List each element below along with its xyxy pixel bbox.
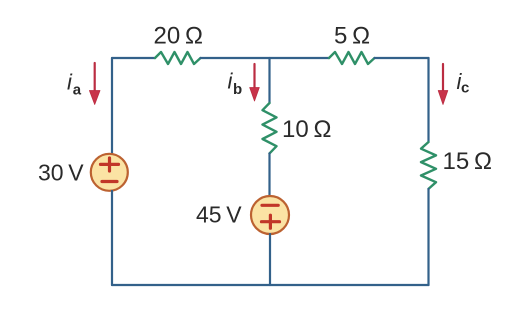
- svg-text:45 V: 45 V: [196, 202, 242, 228]
- wire: right branch lower segment: [427, 189, 429, 285]
- svg-text:5 Ω: 5 Ω: [334, 23, 370, 50]
- minus sign of 30V source: [102, 180, 117, 183]
- svg-text:b: b: [233, 81, 242, 98]
- wire: top-right segment from 5ohm to top-right corner: [375, 57, 429, 59]
- wire: right branch upper segment: [427, 58, 429, 142]
- plus sign of 45V source: [262, 215, 280, 228]
- resistor R 15ohm (right, vertical): [421, 142, 436, 189]
- svg-text:15 Ω: 15 Ω: [443, 148, 492, 175]
- resistor R 20ohm (top-left, horizontal): [155, 52, 201, 64]
- resistor R 5ohm (top-right, horizontal): [329, 52, 375, 64]
- wire: middle branch lower segment: [269, 234, 271, 285]
- wire: top-left segment from top-left corner to 20ohm resistor: [112, 57, 155, 59]
- wire: bottom rail: [112, 284, 429, 286]
- voltage source V1 30V (circle): [91, 154, 128, 191]
- svg-text:30 V: 30 V: [38, 160, 84, 186]
- wire: top-middle segment between 20ohm and 5ohm: [201, 57, 330, 59]
- current arrow ic (red, downward): [438, 64, 448, 105]
- svg-text:20 Ω: 20 Ω: [154, 23, 203, 50]
- current arrow ib (red, downward): [250, 64, 260, 101]
- wire: left branch lower segment: [111, 191, 113, 285]
- svg-text:c: c: [461, 79, 469, 96]
- wire: middle branch upper segment: [268, 58, 270, 103]
- wire: left branch upper segment: [111, 58, 113, 154]
- plus sign of 30V source: [101, 158, 119, 171]
- voltage source V2 45V (circle): [251, 196, 289, 234]
- minus sign of 45V source: [262, 204, 278, 207]
- resistor R 10ohm (middle, vertical): [263, 103, 277, 153]
- svg-text:10 Ω: 10 Ω: [282, 116, 331, 143]
- svg-text:a: a: [73, 82, 82, 99]
- wire: middle segment between 10ohm and 45V source: [268, 153, 270, 196]
- current arrow ia (red, downward): [89, 63, 100, 105]
